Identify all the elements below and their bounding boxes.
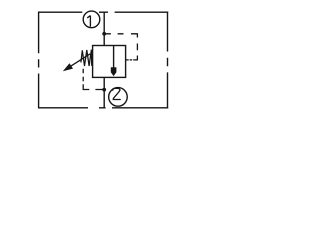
adjustment arrow shaft bbox=[70, 54, 91, 67]
node: junction dot at port 1 pilot tap bbox=[102, 32, 106, 36]
drain pilot line (dashed) corner to port 2 bbox=[83, 84, 102, 89]
wire: port 2 vertical line bbox=[103, 77, 105, 107]
port label circle 1 bbox=[83, 11, 100, 28]
adjustment arrowhead bbox=[63, 63, 73, 71]
component envelope right edge bbox=[167, 12, 169, 109]
flow path arrowhead bbox=[111, 67, 117, 76]
spring (adjustable) zigzag bbox=[81, 50, 92, 66]
valve body (envelope square) bbox=[93, 46, 126, 78]
digit 2 bbox=[113, 88, 121, 99]
pilot line (dashed) top horizontal run bbox=[104, 33, 137, 35]
flow path arrow (normally closed poppet) shaft bbox=[113, 46, 115, 69]
component envelope bottom edge bbox=[39, 107, 169, 109]
wire: port 1 vertical line bbox=[103, 12, 105, 46]
node: junction dot at port 2 drain tap bbox=[102, 88, 106, 92]
digit 1 bbox=[87, 16, 90, 27]
pilot line (dashed) right vertical run bbox=[136, 33, 138, 60]
component envelope (long-dash boundary) top edge bbox=[39, 11, 169, 13]
drain pilot line (dashed) vertical run below spring bbox=[82, 69, 84, 82]
port label circle 2 bbox=[109, 88, 128, 107]
pilot line (dashed) lower horizontal run into valve body bbox=[126, 59, 138, 61]
component envelope left edge bbox=[38, 12, 40, 109]
